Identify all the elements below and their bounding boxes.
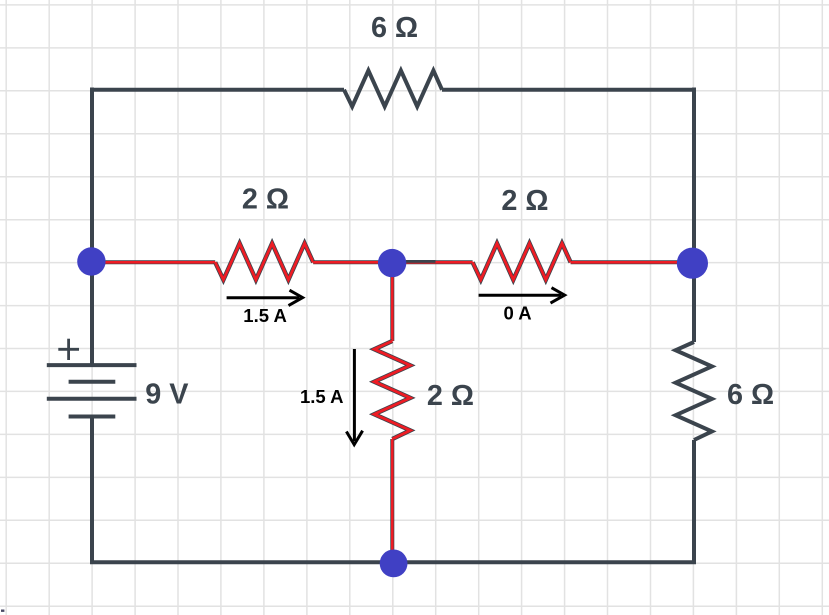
battery V1 plus sign xyxy=(58,339,79,360)
svg-text:9 V: 9 V xyxy=(145,378,189,410)
svg-text:1.5 A: 1.5 A xyxy=(300,386,344,407)
wire: node B to R3 (red with dark upper segment) xyxy=(392,260,473,263)
resistor R3 2 ohm (right, red) xyxy=(473,243,571,279)
wire: top rail left segment xyxy=(92,88,344,92)
node A (left) xyxy=(77,247,105,275)
wire: R4 to node D (red overlay) xyxy=(390,439,394,563)
svg-text:6 Ω: 6 Ω xyxy=(727,379,774,411)
wire: right rail lower xyxy=(692,440,696,564)
wire: R3 to node C (red overlay) xyxy=(571,260,692,264)
svg-text:2 Ω: 2 Ω xyxy=(427,380,474,412)
svg-text:2 Ω: 2 Ω xyxy=(501,185,548,217)
resistor R1 6 ohm (top) xyxy=(344,71,442,107)
wire: node B down to R4 (red overlay) xyxy=(390,263,394,341)
wire: top rail right segment xyxy=(442,88,694,92)
svg-text:2 Ω: 2 Ω xyxy=(242,184,289,216)
wire: left rail upper (node A up to top rail, down to battery) xyxy=(90,88,94,366)
resistor R4 2 ohm (middle vertical, red) xyxy=(374,341,410,439)
wire: left rail lower (battery to bottom rail) xyxy=(90,417,94,565)
battery V1 9V xyxy=(47,365,137,416)
wire: node A to R2 (red overlay) xyxy=(91,260,215,264)
current arrow I1 through R2 xyxy=(227,290,303,305)
current arrow I3 through R4 xyxy=(346,349,362,445)
node C (right) xyxy=(677,248,708,279)
svg-text:1.5 A: 1.5 A xyxy=(243,305,287,326)
wire: R2 to node B (red overlay) xyxy=(313,260,392,264)
resistor R5 6 ohm (right) xyxy=(676,342,712,440)
svg-text:0 A: 0 A xyxy=(504,303,532,324)
resistor R2 2 ohm (left, red) xyxy=(215,243,313,279)
current arrow I2 through R3 xyxy=(479,288,565,303)
node D (bottom) xyxy=(380,550,408,578)
node B (middle) xyxy=(378,249,406,277)
wire: bottom rail xyxy=(90,560,696,564)
wire: right rail upper xyxy=(692,88,696,343)
svg-text:6 Ω: 6 Ω xyxy=(371,12,418,44)
